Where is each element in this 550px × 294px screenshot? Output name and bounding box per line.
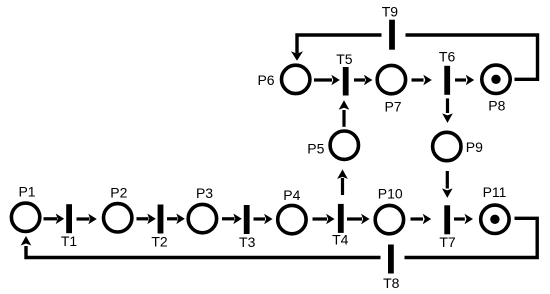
transition T9 [382, 4, 399, 50]
wire arc T4 to P5 (upward) [337, 169, 348, 195]
place P11 with token [481, 184, 509, 234]
svg-text:P4: P4 [283, 187, 300, 203]
svg-text:T5: T5 [336, 51, 353, 67]
svg-text:P5: P5 [307, 140, 324, 156]
wire arc T9 to P6 (across top and down with arrow) [291, 35, 382, 61]
place P3 [188, 185, 216, 233]
svg-text:P10: P10 [378, 186, 403, 202]
svg-text:P2: P2 [110, 185, 127, 201]
svg-text:P7: P7 [384, 98, 401, 114]
place P8 with token [482, 65, 510, 113]
wire arc P5 to T5 (upward) [339, 100, 350, 127]
transition T5 [336, 51, 353, 96]
svg-text:T1: T1 [61, 233, 78, 249]
wire arc T6 to P8 [455, 75, 474, 86]
svg-text:P3: P3 [196, 185, 213, 201]
wire arc P7 to T6 [412, 75, 432, 86]
transition T7 [439, 205, 456, 250]
wire arc P1 to T1 [44, 214, 65, 225]
svg-text:T7: T7 [439, 234, 456, 250]
transition T8 [383, 245, 400, 292]
wire arc T2 to P3 [167, 214, 185, 225]
wire arc P6 to T5 [314, 75, 340, 86]
svg-text:T9: T9 [382, 4, 399, 20]
svg-text:P11: P11 [483, 184, 507, 200]
transition T3 [239, 205, 256, 250]
transition T6 [439, 48, 456, 94]
svg-text:T2: T2 [151, 233, 168, 249]
wire arc P10 to T7 [411, 214, 432, 225]
place P5 [307, 131, 358, 159]
wire arc P9 to T7 (downward) [442, 171, 453, 198]
svg-text:P6: P6 [257, 72, 274, 88]
wire arc T1 to P2 [77, 214, 97, 225]
place P4 [278, 187, 306, 234]
wire arc P4 to T4 [313, 214, 335, 225]
wire arc T8 to P1 (across bottom and up with arrow) [21, 236, 381, 258]
svg-text:P9: P9 [466, 139, 483, 155]
wire arc P8 to T9 (right side up and across top) [406, 35, 538, 79]
wire arc T6 to P9 (downward) [442, 98, 453, 123]
place P6 [257, 65, 309, 93]
wire arc T7 to P11 [454, 214, 473, 225]
transition T2 [151, 205, 168, 250]
svg-text:T4: T4 [332, 232, 349, 248]
svg-text:T3: T3 [239, 234, 256, 250]
transition T1 [61, 204, 78, 249]
wire arc T4 to P10 [347, 214, 370, 225]
wire arc P2 to T2 [137, 214, 156, 225]
place P2 [104, 185, 132, 232]
transition T4 [332, 204, 349, 248]
svg-text:P8: P8 [488, 97, 505, 113]
place P10 [375, 186, 403, 234]
wire arc T3 to P4 [254, 214, 273, 225]
place P1 [11, 184, 39, 232]
svg-text:T8: T8 [383, 275, 400, 291]
svg-text:P1: P1 [18, 184, 35, 200]
place P7 [377, 65, 405, 114]
place P9 [433, 132, 483, 160]
svg-text:T6: T6 [439, 48, 456, 64]
wire arc T5 to P7 [354, 75, 372, 86]
wire arc P11 to T8 (right side down and across bottom) [405, 218, 538, 257]
wire arc P3 to T3 [222, 214, 242, 225]
